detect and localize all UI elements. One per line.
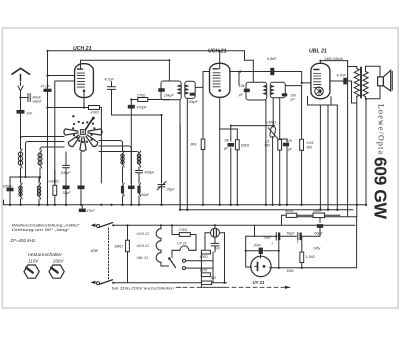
- svg-text:60µF: 60µF: [315, 231, 324, 235]
- svg-text:MΩ: MΩ: [307, 145, 313, 149]
- svg-text:47kΩ: 47kΩ: [91, 110, 100, 114]
- svg-text:4,7pF: 4,7pF: [105, 78, 115, 82]
- svg-text:1nF: 1nF: [215, 246, 222, 250]
- svg-text:274Ω: 274Ω: [178, 228, 188, 232]
- svg-text:6,8nF: 6,8nF: [267, 57, 277, 61]
- svg-text:MΩ: MΩ: [265, 144, 271, 148]
- svg-text:145v: 145v: [313, 246, 321, 250]
- svg-text:MW: MW: [191, 143, 198, 147]
- svg-text:pF: pF: [238, 93, 244, 97]
- svg-text:Drehung um 90° „lang“: Drehung um 90° „lang“: [12, 228, 71, 232]
- svg-text:50µF: 50µF: [264, 235, 273, 239]
- svg-text:pF: pF: [223, 147, 229, 151]
- svg-text:+: +: [297, 239, 300, 244]
- svg-text:470pF: 470pF: [137, 106, 148, 110]
- svg-text:200V: 200V: [52, 258, 65, 263]
- svg-text:UCH 21: UCH 21: [137, 232, 150, 236]
- svg-text:UBL 21: UBL 21: [309, 49, 327, 55]
- svg-text:4,7nF: 4,7nF: [337, 74, 347, 78]
- svg-text:wand: wand: [33, 99, 43, 103]
- svg-text:ZF=452 kHz: ZF=452 kHz: [9, 238, 36, 243]
- svg-text:110V: 110V: [28, 258, 40, 263]
- svg-text:0,5MΩ: 0,5MΩ: [266, 120, 277, 124]
- svg-text:100pF: 100pF: [3, 185, 14, 189]
- svg-text:1nF: 1nF: [26, 112, 33, 116]
- svg-text:10kpF: 10kpF: [188, 100, 199, 104]
- svg-text:50µF: 50µF: [287, 231, 296, 235]
- svg-text:UCH 21: UCH 21: [73, 46, 92, 52]
- svg-text:609 GW: 609 GW: [371, 157, 391, 219]
- svg-text:100: 100: [287, 139, 293, 143]
- svg-text:1800: 1800: [313, 209, 321, 213]
- svg-text:32pF: 32pF: [63, 191, 72, 195]
- svg-text:1,2kΩ: 1,2kΩ: [306, 255, 316, 259]
- svg-text:UBL 21: UBL 21: [137, 256, 149, 260]
- svg-text:netzumschalter: netzumschalter: [28, 252, 63, 257]
- svg-text:+: +: [271, 240, 274, 245]
- svg-text:50pF: 50pF: [141, 193, 150, 197]
- svg-text:UY 21: UY 21: [253, 280, 265, 285]
- svg-text:0,8MΩ: 0,8MΩ: [49, 179, 60, 183]
- svg-text:pF: pF: [290, 97, 296, 101]
- svg-text:bei 110u.200V kurzschließen: bei 110u.200V kurzschließen: [112, 287, 174, 291]
- svg-text:UY 21: UY 21: [177, 241, 187, 245]
- svg-text:680Ω: 680Ω: [285, 209, 294, 213]
- svg-text:10k: 10k: [239, 84, 245, 88]
- svg-text:47nF: 47nF: [87, 209, 96, 213]
- svg-text:27kΩ: 27kΩ: [136, 94, 146, 98]
- svg-text:10kpF: 10kpF: [164, 93, 175, 97]
- svg-text:20pF: 20pF: [166, 187, 176, 191]
- svg-text:pF: pF: [287, 147, 293, 151]
- svg-text:20nF: 20nF: [253, 244, 263, 248]
- svg-text:UCH 21: UCH 21: [137, 244, 150, 248]
- svg-text:400pF: 400pF: [145, 170, 156, 174]
- svg-text:47 pF: 47 pF: [41, 85, 51, 89]
- svg-text:1870: 1870: [200, 268, 208, 272]
- svg-text:UCH 21: UCH 21: [208, 49, 227, 55]
- svg-text:68: 68: [225, 138, 229, 142]
- svg-text:58kΩ: 58kΩ: [115, 244, 124, 248]
- svg-text:420Ω: 420Ω: [200, 255, 209, 259]
- svg-text:50kΩ: 50kΩ: [241, 143, 250, 147]
- svg-text:165v: 165v: [287, 269, 295, 273]
- svg-text:Loewe/Opta: Loewe/Opta: [377, 104, 386, 154]
- svg-text:40W: 40W: [91, 249, 99, 253]
